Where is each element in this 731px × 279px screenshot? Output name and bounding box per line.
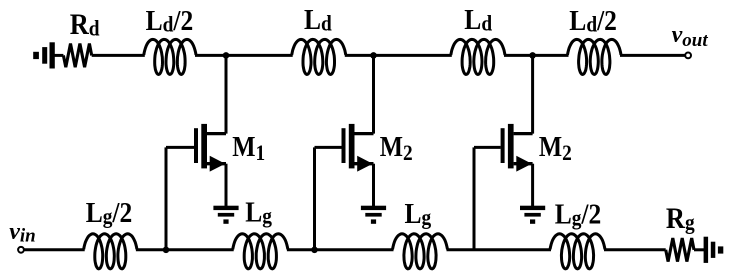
- inductor Lg/2 (left): [84, 234, 137, 269]
- wire: [620, 54, 685, 57]
- ground (source, stage 3): [520, 206, 545, 224]
- wire: [604, 248, 666, 251]
- node (gate 2): [311, 247, 318, 254]
- ground (source, stage 2): [361, 206, 386, 224]
- transistor M1: [166, 124, 226, 172]
- wire: [136, 248, 234, 251]
- inductor Lg (second): [393, 234, 448, 269]
- wire: [92, 54, 145, 57]
- wire (source to ground, stage 2): [372, 164, 375, 208]
- inductor Lg (first): [233, 234, 288, 269]
- resistor Rg: [666, 238, 694, 262]
- inductor Ld/2 (left): [144, 39, 196, 74]
- wire: [694, 248, 705, 251]
- ground (drain-line termination, left): [33, 42, 55, 68]
- wire: [345, 54, 452, 57]
- wire (drain riser, stage 3): [531, 55, 534, 133]
- transistor M2 (third stage): [474, 124, 533, 172]
- wire (drain riser, stage 1): [225, 55, 228, 133]
- resistor Rd: [63, 44, 91, 68]
- node (gate 1): [163, 247, 170, 254]
- inductor Lg/2 (right): [550, 234, 605, 269]
- wire: [287, 248, 394, 251]
- wire: [55, 54, 64, 57]
- ground (gate-line termination, right): [704, 237, 724, 263]
- wire: [24, 248, 85, 251]
- inductor Ld (first): [292, 39, 346, 74]
- inductor Ld/2 (right): [568, 39, 622, 74]
- inductor Ld (second): [451, 39, 505, 74]
- wire (drain riser, stage 2): [372, 55, 375, 133]
- node (drain 1): [223, 52, 230, 59]
- ground (source, stage 1): [213, 206, 238, 224]
- wire: [504, 54, 569, 57]
- wire (gate riser, stage 1): [165, 147, 168, 249]
- wire: [195, 54, 293, 57]
- wire: [447, 248, 552, 251]
- node (drain 3): [529, 52, 536, 59]
- transistor M2 (second stage): [315, 124, 374, 172]
- wire (source to ground, stage 3): [531, 164, 534, 208]
- node (drain 2): [370, 52, 377, 59]
- wire (gate riser, stage 3): [473, 147, 476, 249]
- terminal vout: [685, 53, 691, 59]
- wire (source to ground, stage 1): [225, 164, 228, 208]
- wire (gate riser, stage 2): [313, 147, 316, 249]
- terminal vin: [18, 247, 24, 253]
